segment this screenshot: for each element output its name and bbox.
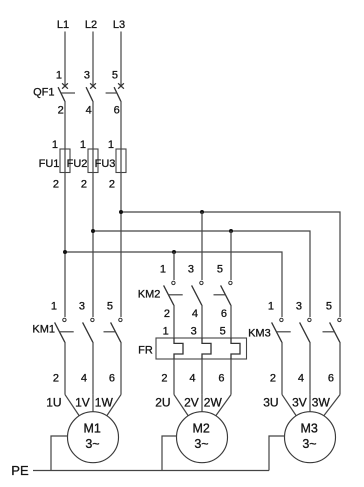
svg-text:KM2: KM2 <box>138 288 161 300</box>
wire bus L1 down to KM2 pin 1 <box>173 252 175 280</box>
svg-text:2: 2 <box>53 179 59 191</box>
svg-text:1V: 1V <box>75 396 90 410</box>
svg-text:3: 3 <box>296 301 302 313</box>
contactor KM1 linkage tick pole 3 <box>104 331 116 333</box>
svg-text:L2: L2 <box>85 19 97 31</box>
junction L1 bus to KM2 left pole <box>172 250 176 254</box>
contactor KM1 pole 3 fixed contact circle <box>119 318 122 321</box>
wire bus L2 down to KM2 pin 5 <box>230 231 232 280</box>
thermal overload relay FR body <box>156 338 247 359</box>
wire FR pin 6 to motor M2 terminal <box>230 359 232 395</box>
svg-text:3V: 3V <box>292 396 307 410</box>
wire PE tap to motor M3 frame <box>269 436 285 471</box>
svg-text:1: 1 <box>80 139 86 151</box>
contactor KM1 pole 1 fixed contact circle <box>63 318 66 321</box>
wire KM3 pin 6 to motor terminal <box>339 342 341 395</box>
svg-text:3U: 3U <box>263 396 278 410</box>
junction L2 bus to KM2 right pole <box>229 229 233 233</box>
breaker QF1 pole 3 fixed contact cross <box>118 83 124 88</box>
wire QF1 pin 6 to FU3 pin 1 <box>120 101 122 149</box>
wire FU2 pin 2 down to KM1 pin 3 <box>92 173 94 318</box>
svg-text:6: 6 <box>221 308 227 320</box>
svg-text:PE: PE <box>11 463 29 478</box>
svg-text:1: 1 <box>108 139 114 151</box>
svg-text:M3: M3 <box>301 421 318 435</box>
wire KM3 pin 4 to motor terminal <box>309 342 311 395</box>
wire KM2 pin 6 to FR pin 5 <box>230 305 232 338</box>
svg-text:5: 5 <box>326 301 332 313</box>
contactor KM3 linkage tick pole 1 <box>277 331 291 333</box>
svg-text:1U: 1U <box>46 396 61 410</box>
wire FR pin 4 to motor M2 terminal <box>201 359 203 395</box>
svg-text:L3: L3 <box>113 19 125 31</box>
svg-text:5: 5 <box>220 325 226 337</box>
wire into M3 terminal W <box>324 395 340 416</box>
svg-text:2: 2 <box>109 179 115 191</box>
svg-text:4: 4 <box>86 104 92 116</box>
contactor KM1 pole 1 blade <box>55 322 65 342</box>
svg-text:2: 2 <box>270 372 276 384</box>
svg-text:1W: 1W <box>95 396 114 410</box>
svg-text:M2: M2 <box>193 421 210 435</box>
svg-text:KM3: KM3 <box>248 327 271 339</box>
FR heater element pole 3 <box>231 338 240 359</box>
breaker QF1 pole 3 blade <box>114 87 121 101</box>
svg-text:2: 2 <box>81 179 87 191</box>
svg-text:2U: 2U <box>155 396 170 410</box>
contactor KM1 linkage tick pole 1 <box>60 331 74 333</box>
fuse FU2 element wire <box>92 149 94 173</box>
wire bus L3 down to KM2 pin 3 <box>201 212 203 280</box>
breaker QF1 pole 1 fixed contact cross <box>62 83 68 88</box>
breaker QF1 pole 2 fixed contact cross <box>90 83 96 88</box>
svg-text:KM1: KM1 <box>32 323 55 335</box>
wire bus from L1 to KM2 pole and KM3 pole <box>65 252 282 317</box>
fuse FU1 body <box>60 149 70 173</box>
contactor KM2 pole 2 fixed contact circle <box>200 281 203 284</box>
svg-text:4: 4 <box>189 372 195 384</box>
wire KM2 pin 4 to FR pin 3 <box>201 305 203 338</box>
fuse FU3 body <box>116 149 126 173</box>
wire KM1 pin 6 to motor terminal <box>120 342 122 395</box>
svg-text:2: 2 <box>164 308 170 320</box>
svg-text:1: 1 <box>52 139 58 151</box>
svg-text:2V: 2V <box>184 396 199 410</box>
svg-text:FR: FR <box>138 344 153 356</box>
junction L3 bus at phase wire <box>119 210 123 214</box>
svg-text:FU3: FU3 <box>95 158 116 170</box>
motor M2 body <box>177 412 228 463</box>
breaker QF1 linkage tick pole 3 <box>106 92 117 94</box>
junction L2 bus at phase wire <box>91 229 95 233</box>
svg-text:6: 6 <box>109 372 115 384</box>
wire into M2 terminal U <box>174 395 188 416</box>
svg-text:2: 2 <box>161 372 167 384</box>
wire FR pin 2 to motor M2 terminal <box>173 359 175 395</box>
svg-text:L1: L1 <box>57 19 69 31</box>
FR heater element pole 1 <box>174 338 183 359</box>
svg-text:2W: 2W <box>204 396 223 410</box>
svg-text:4: 4 <box>298 372 304 384</box>
svg-text:3W: 3W <box>312 396 331 410</box>
wire into M2 terminal V <box>201 395 203 412</box>
contactor KM1 pole 2 blade <box>83 322 93 342</box>
svg-text:3~: 3~ <box>194 437 208 451</box>
wire KM3 pin 2 to motor terminal <box>281 342 283 395</box>
svg-text:4: 4 <box>81 372 87 384</box>
breaker QF1 pole 1 blade <box>58 87 65 101</box>
svg-text:M1: M1 <box>84 421 101 435</box>
contactor KM1 pole 2 fixed contact circle <box>91 318 94 321</box>
contactor KM1 pole 3 blade <box>111 322 121 342</box>
svg-text:4: 4 <box>192 308 198 320</box>
contactor KM2 linkage tick pole 1 <box>169 294 183 296</box>
contactor KM2 pole 3 fixed contact circle <box>229 281 232 284</box>
wire into M1 terminal W <box>107 395 121 416</box>
svg-text:3: 3 <box>191 325 197 337</box>
breaker QF1 pole 2 blade <box>86 87 93 101</box>
contactor KM2 pole 1 fixed contact circle <box>172 281 175 284</box>
junction L1 bus at phase wire <box>63 250 67 254</box>
wire QF1 pin 4 to FU2 pin 1 <box>92 101 94 149</box>
wire FU3 pin 2 down to KM1 pin 5 <box>120 173 122 318</box>
contactor KM2 pole 2 blade <box>192 285 202 305</box>
wire KM1 pin 4 to motor terminal <box>92 342 94 395</box>
breaker QF1 linkage tick pole 1 <box>61 92 75 94</box>
svg-text:1: 1 <box>56 69 62 81</box>
wire L3 drop to QF1 pin 5 <box>120 32 122 86</box>
svg-text:5: 5 <box>217 264 223 276</box>
wire PE tap to motor M2 frame <box>162 436 177 471</box>
svg-text:3: 3 <box>79 301 85 313</box>
contactor KM3 pole 2 blade <box>300 322 310 342</box>
wire into M1 terminal V <box>92 395 94 412</box>
wire into M2 terminal W <box>216 395 231 416</box>
wire L2 drop to QF1 pin 3 <box>92 32 94 86</box>
svg-text:3: 3 <box>188 264 194 276</box>
wire bus from L2 to KM2 pole and KM3 pole <box>93 231 310 317</box>
wire QF1 pin 2 to FU1 pin 1 <box>64 101 66 149</box>
svg-text:6: 6 <box>328 372 334 384</box>
contactor KM2 linkage tick pole 3 <box>214 294 226 296</box>
svg-text:5: 5 <box>107 301 113 313</box>
contactor KM3 pole 1 fixed contact circle <box>280 318 283 321</box>
svg-text:1: 1 <box>51 301 57 313</box>
contactor KM3 pole 2 fixed contact circle <box>308 318 311 321</box>
wire KM1 pin 2 to motor terminal <box>64 342 66 395</box>
svg-text:1: 1 <box>268 301 274 313</box>
fuse FU1 element wire <box>64 149 66 173</box>
wire L1 drop to QF1 pin 1 <box>64 32 66 86</box>
svg-text:1: 1 <box>160 264 166 276</box>
wire into M3 terminal U <box>282 395 296 416</box>
fuse FU2 body <box>88 149 98 173</box>
wire KM2 pin 2 to FR pin 1 <box>173 305 175 338</box>
svg-text:FU2: FU2 <box>67 158 88 170</box>
contactor KM3 pole 1 blade <box>272 322 282 342</box>
svg-text:3~: 3~ <box>85 437 99 451</box>
svg-text:6: 6 <box>114 104 120 116</box>
svg-text:3~: 3~ <box>302 437 316 451</box>
fuse FU3 element wire <box>120 149 122 173</box>
wire PE bus <box>33 470 269 472</box>
svg-text:6: 6 <box>218 372 224 384</box>
contactor KM3 pole 3 fixed contact circle <box>338 318 341 321</box>
wire FU1 pin 2 down to KM1 pin 1 <box>64 173 66 318</box>
svg-text:3: 3 <box>84 69 90 81</box>
contactor KM3 pole 3 blade <box>330 322 340 342</box>
svg-text:2: 2 <box>53 372 59 384</box>
contactor KM2 pole 3 blade <box>221 285 231 305</box>
wire PE tap to motor M1 frame <box>51 436 68 471</box>
svg-text:5: 5 <box>112 69 118 81</box>
motor M3 body <box>285 412 336 463</box>
wire into M1 terminal U <box>65 395 79 416</box>
FR heater element pole 2 <box>202 338 211 359</box>
wire bus from L3 to KM2 pole and KM3 pole <box>121 212 340 317</box>
contactor KM3 linkage tick pole 3 <box>323 331 335 333</box>
junction L3 bus to KM2 middle pole <box>200 210 204 214</box>
svg-text:FU1: FU1 <box>39 158 60 170</box>
contactor KM2 pole 1 blade <box>164 285 174 305</box>
svg-text:QF1: QF1 <box>33 87 54 99</box>
svg-text:1: 1 <box>163 325 169 337</box>
motor M1 body <box>68 412 119 463</box>
wire into M3 terminal V <box>309 395 311 412</box>
svg-text:2: 2 <box>58 104 64 116</box>
